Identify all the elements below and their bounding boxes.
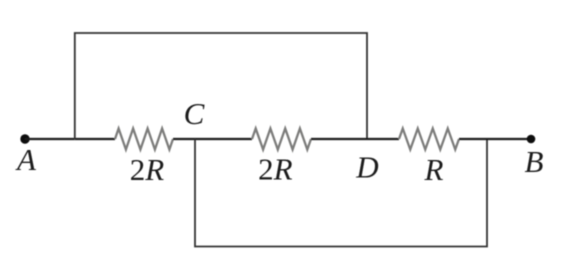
terminal A dot <box>20 134 29 143</box>
wire R2 to node D <box>311 138 367 140</box>
wire node D to resistor R3 <box>367 138 399 140</box>
wire node C to resistor R2 <box>195 138 252 140</box>
svg-text:C: C <box>184 96 205 131</box>
resistor R3 value R <box>399 129 459 150</box>
bottom loop wire (from node C down, across, up to right junction) <box>195 139 487 247</box>
svg-text:2R: 2R <box>130 152 165 187</box>
wire junction to resistor R1 <box>75 138 115 140</box>
svg-text:2R: 2R <box>258 152 293 187</box>
resistor R2 value 2R <box>252 129 311 150</box>
svg-text:D: D <box>355 150 378 185</box>
wire R1 to node C <box>173 138 195 140</box>
wire A to top-loop junction <box>25 138 75 140</box>
svg-text:B: B <box>525 144 544 179</box>
svg-text:R: R <box>424 152 444 187</box>
resistor R1 value 2R <box>115 129 173 150</box>
top loop wire (left vertical, top horizontal, right vertical down to node D) <box>75 33 367 139</box>
terminal B dot <box>527 135 536 144</box>
svg-text:A: A <box>15 142 37 177</box>
wire right junction to terminal B <box>487 138 531 140</box>
wire R3 to bottom-loop right junction <box>459 138 487 140</box>
